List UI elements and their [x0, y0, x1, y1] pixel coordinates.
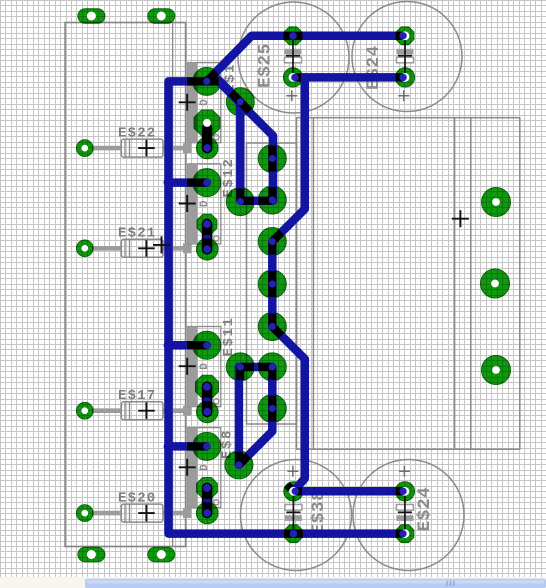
hole oblong BL	[87, 550, 96, 559]
hole mount pad 1	[492, 198, 500, 206]
hole E$8 pad B	[235, 461, 242, 468]
oblong pad bottom-left	[78, 547, 105, 562]
hole E$38 pad -	[290, 530, 298, 538]
svg-text:E$11: E$11	[221, 316, 237, 356]
hole diode E$12 top	[203, 220, 211, 228]
svg-text:D: D	[199, 464, 211, 471]
diode E$11 bottom pad	[196, 401, 218, 423]
svg-text:D: D	[199, 99, 211, 106]
diode E$8 bottom pad	[196, 502, 218, 524]
diode E$8 top pad	[197, 478, 218, 499]
resistor E$17 origin cross	[138, 402, 155, 419]
hole diode E$11 top	[203, 383, 211, 391]
module inner line	[172, 23, 174, 547]
capacitor E$25 pad +	[283, 68, 302, 87]
overlap E$13 pad A diag	[207, 72, 216, 81]
scrollbar thumb	[85, 579, 546, 588]
overlap pin-strip pad 6 vert	[268, 367, 276, 380]
pin-strip pad 6	[258, 353, 286, 381]
mount pad 3	[482, 356, 511, 385]
hole E$11 pad B	[237, 363, 244, 370]
hole pin-strip 5	[269, 323, 276, 330]
overlap E$38 pad + horiz	[297, 487, 302, 495]
board outline (connector module)	[65, 23, 186, 547]
overlap E$13 pad A	[187, 77, 218, 85]
hole E$12 pad A	[203, 179, 210, 186]
pin-strip pad 5	[258, 313, 286, 341]
mount pad 2	[481, 269, 510, 298]
hole resistor E$20	[81, 510, 88, 517]
hole E$24 bottom pad +	[399, 488, 406, 495]
overlap E$11 pad B horiz	[240, 363, 254, 371]
resistor E$21 origin cross	[138, 240, 155, 257]
overlap E$24 bottom pad - chord	[396, 530, 402, 538]
wire GND bus vertical + bottom rail	[169, 81, 405, 533]
overlap E$13 pad B	[231, 93, 250, 112]
hole diode E$13 bottom	[203, 144, 211, 152]
hole resistor E$17	[81, 407, 88, 414]
svg-text:D: D	[199, 200, 211, 207]
transistor E$11 origin cross	[179, 358, 196, 375]
wire loop 1 (E$13/E$12 to pin-strip)	[219, 81, 273, 201]
resistor E$22 pad	[76, 140, 93, 157]
hole E$12 pad B	[237, 198, 244, 205]
diode E$12 body bar	[202, 224, 213, 249]
capacitor E$24 (top) outline	[352, 2, 462, 112]
oblong pad top-left	[78, 9, 105, 24]
oblong pad bottom-right	[148, 547, 175, 562]
svg-text:E$22: E$22	[118, 126, 156, 142]
oblong pad top-right	[148, 9, 175, 24]
resistor E$21 silkscreen	[92, 246, 122, 251]
overlap E$11 pad B vert	[236, 367, 244, 380]
relay inner line 1	[312, 118, 314, 450]
wire stub to E$8 pad A	[168, 442, 207, 451]
pin-strip pad 3	[258, 228, 286, 256]
svg-text:E$20: E$20	[118, 491, 156, 507]
capacitor E$24 top pad -	[396, 27, 414, 45]
hole diode E$8 top	[203, 484, 211, 492]
overlap E$38 pad - chord	[284, 530, 303, 538]
hole diode E$12 bottom	[203, 245, 211, 253]
transistor E$8 pad A	[193, 432, 221, 460]
overlap E$8 pad B vert	[235, 452, 243, 465]
hole E$24 bottom pad -	[399, 530, 406, 537]
hole E$11 pad A	[203, 342, 210, 349]
scrollbar grip	[447, 581, 454, 587]
svg-text:E$17: E$17	[118, 388, 156, 404]
overlap pin-strip pad 3 diag	[272, 232, 281, 241]
capacitor E$38 outline	[241, 460, 352, 571]
overlap pin-strip pad 2 horiz	[258, 197, 272, 205]
scrollbar area	[0, 577, 546, 588]
transistor E$13 pad B	[226, 88, 254, 116]
transistor E$8 pad B	[225, 451, 253, 479]
hole E$24 bottom pad + (white)	[401, 487, 410, 496]
hole E$13 pad B	[237, 98, 244, 105]
transistor E$8 package silkscreen	[188, 428, 221, 508]
pin-strip pad 7	[258, 395, 286, 423]
hole oblong TR	[157, 12, 166, 21]
pin-strip pad 2	[258, 186, 286, 214]
hole E$24 top pad -	[399, 32, 406, 39]
overlap pin-strip pad 4	[268, 271, 276, 297]
hole pin-strip 1	[269, 155, 276, 162]
wire stub to E$11 pad A	[168, 341, 207, 350]
capacitor E$24 (bottom) outline	[353, 460, 464, 571]
diode E$8 body bar	[202, 488, 213, 513]
overlap E$24 bottom pad + chord	[396, 487, 402, 495]
hole E$24 top pad +	[399, 74, 406, 81]
overlap E$24 top pad + chord	[396, 73, 402, 81]
extra origin cross	[153, 236, 170, 253]
capacitor E$38 pad +	[284, 482, 303, 501]
diode E$11 body bar gap	[203, 398, 210, 402]
hole diode E$11 bottom	[203, 408, 211, 416]
hole oblong TL	[87, 12, 96, 21]
transistor E$12 pad B	[226, 188, 254, 216]
relay outline rectangle	[297, 118, 520, 450]
overlap E$25 pad - chord	[284, 32, 303, 40]
pin-strip pad 4	[258, 270, 286, 298]
diode E$13 body bar	[202, 128, 213, 148]
overlap E$8 pad A	[187, 442, 207, 450]
hole E$38 pad +	[292, 488, 299, 495]
overlap pin-strip pad 5 diag	[272, 327, 281, 336]
hole pin-strip 3	[269, 238, 276, 245]
capacitor E$38 pad -	[285, 525, 303, 543]
transistor E$13 pad A	[193, 67, 221, 95]
wire middle bus E$25 to E$38	[272, 77, 305, 491]
overlap E$25 pad + chord	[297, 73, 302, 81]
diode E$12 top pad	[197, 214, 217, 234]
pin-strip outline rectangle	[247, 143, 297, 424]
mount pad 1	[482, 188, 511, 217]
E$24 top polarity marks	[397, 49, 414, 55]
diode E$11 top pad	[196, 375, 219, 398]
hole E$25 pad + (white)	[289, 73, 298, 82]
hole E$24 top pad - (white)	[401, 31, 410, 40]
overlap pin-strip pad 2 vert	[268, 187, 276, 201]
resistor E$20 pad	[76, 505, 93, 522]
resistor E$20 silkscreen	[92, 511, 122, 516]
relay origin cross	[452, 210, 469, 227]
wire stub to E$12 pad A	[168, 178, 207, 187]
diode E$11 body bar	[202, 387, 213, 412]
wire top cap rail minus	[293, 73, 405, 82]
hole E$13 pad A	[203, 78, 210, 85]
diode E$13 bottom pad	[196, 137, 218, 159]
overlap pin-strip pad 3 vert	[268, 242, 276, 255]
overlap E$38 pad + diag	[287, 485, 291, 489]
overlap E$24 top pad - chord	[396, 32, 402, 40]
svg-text:E$24: E$24	[415, 487, 435, 532]
hole E$24 top pad + (white)	[401, 73, 410, 82]
hole oblong BR	[157, 550, 166, 559]
wire loop 2 (E$11/E$8 to pin-strip)	[239, 367, 272, 465]
resistor E$17 silkscreen	[92, 408, 122, 413]
svg-text:E$24: E$24	[364, 45, 384, 90]
hole mount pad 3	[492, 366, 500, 374]
diode E$12 body bar gap	[203, 235, 210, 239]
transistor E$12 pad A	[193, 169, 221, 197]
hole E$25 pad +	[291, 74, 298, 81]
wire bottom cap rail plus	[293, 487, 405, 496]
transistor E$11 pad B	[226, 353, 254, 381]
diode E$12 bottom pad	[196, 238, 218, 260]
transistor E$11 pad A	[193, 331, 221, 359]
overlap E$8 pad B diag	[239, 456, 248, 465]
capacitor E$24 bottom pad +	[395, 482, 414, 501]
capacitor E$25 pad -	[284, 27, 302, 45]
svg-text:D: D	[199, 363, 211, 370]
hole pin-strip 4	[269, 280, 276, 287]
hole resistor E$22	[81, 145, 88, 152]
E$24 bottom polarity marks	[396, 505, 413, 511]
overlap pin-strip pad 6 horiz	[258, 363, 272, 371]
relay inner line 3	[470, 118, 472, 450]
hole E$25 pad -	[289, 32, 297, 40]
hole E$38 pad + (white)	[289, 487, 298, 496]
hole diode E$13 top	[203, 119, 211, 127]
resistor E$22 origin cross	[138, 140, 155, 157]
diode E$8 body bar gap	[203, 499, 210, 503]
transistor E$13 origin cross	[179, 94, 196, 111]
hole mount pad 2	[491, 280, 499, 288]
transistor E$12 package silkscreen	[188, 164, 221, 244]
hole pin-strip 6	[269, 363, 276, 370]
overlap pin-strip pad 1	[268, 146, 276, 172]
resistor E$22 silkscreen	[92, 146, 122, 151]
hole diode E$8 bottom	[203, 509, 211, 517]
hole resistor E$21	[81, 245, 88, 252]
hole pin-strip 2	[269, 196, 276, 203]
overlap E$12 pad A	[187, 179, 207, 187]
svg-text:E$21: E$21	[118, 226, 156, 242]
resistor E$17 pad	[76, 402, 93, 419]
transistor E$13 package silkscreen	[188, 63, 221, 143]
capacitor E$24 bottom pad -	[396, 525, 414, 543]
resistor E$21 pad	[76, 240, 93, 257]
capacitor E$24 top pad +	[395, 68, 414, 87]
overlap pin-strip pad 5 vert	[268, 314, 276, 327]
hole E$8 pad A	[203, 443, 210, 450]
pin-strip pad 1	[258, 145, 286, 173]
overlap E$11 pad A	[187, 341, 207, 349]
hole pin-strip 7	[269, 405, 276, 412]
overlap pin-strip pad 7	[268, 396, 276, 422]
E$38 polarity marks	[285, 505, 302, 511]
transistor E$12 origin cross	[179, 195, 196, 212]
hole E$24 bottom pad - (white)	[401, 529, 410, 538]
overlap E$12 pad B vert	[236, 189, 244, 202]
capacitor E$25 outline	[238, 2, 349, 113]
wire E$13 pad A to top cap rail	[207, 36, 405, 82]
transistor E$8 origin cross	[179, 459, 196, 476]
E$25 polarity marks	[285, 49, 302, 55]
relay inner line 2	[454, 118, 456, 450]
overlap E$12 pad B horiz	[240, 197, 254, 205]
diode E$13 top pad	[194, 110, 220, 136]
resistor E$20 origin cross	[138, 505, 155, 522]
svg-text:E$25: E$25	[255, 43, 275, 88]
svg-text:E$38: E$38	[309, 490, 329, 535]
transistor E$11 package silkscreen	[188, 327, 221, 407]
